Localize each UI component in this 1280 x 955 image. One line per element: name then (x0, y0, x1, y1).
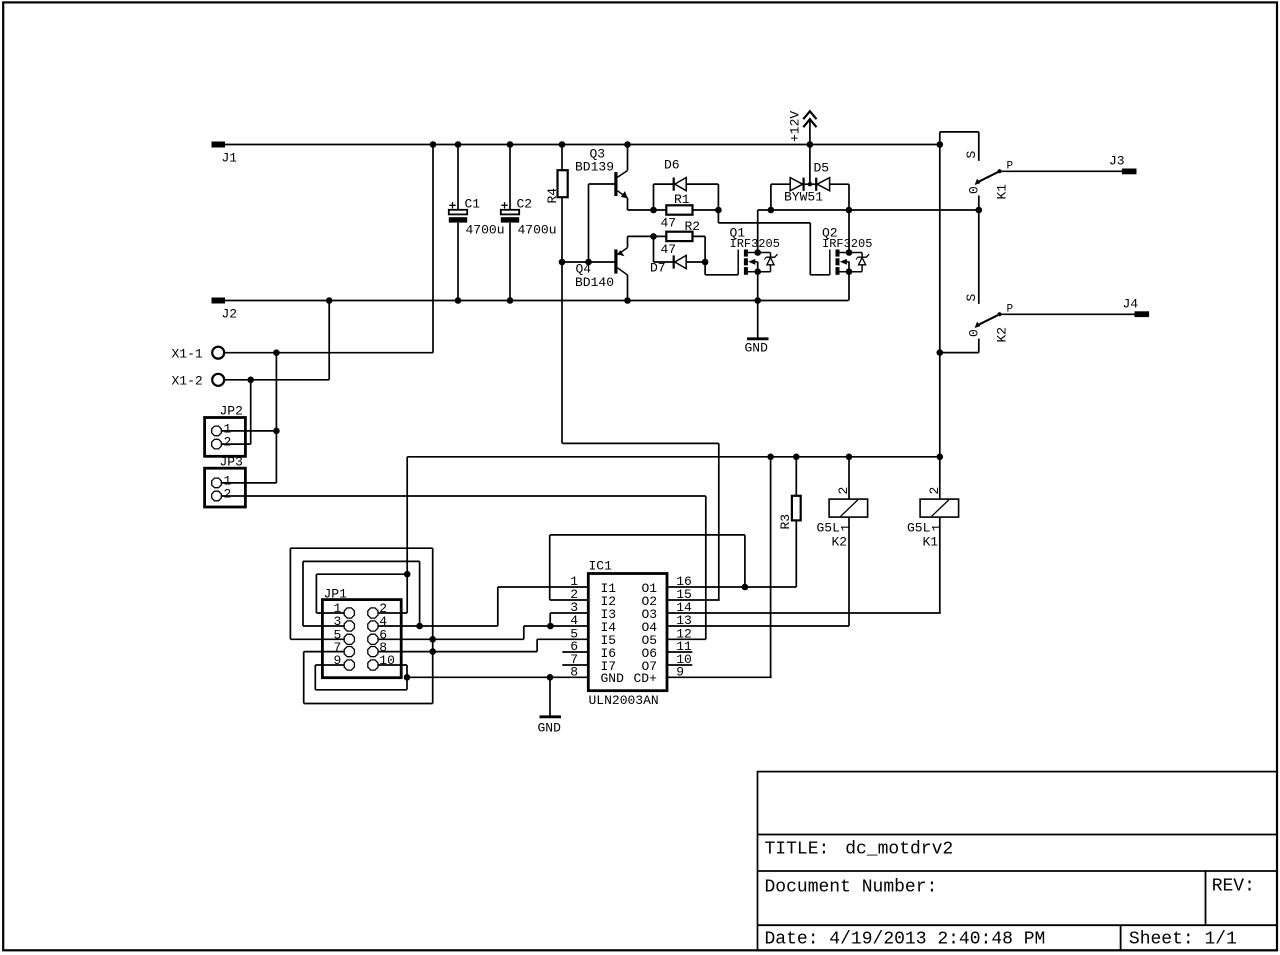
svg-text:0: 0 (967, 186, 982, 194)
svg-text:GND: GND (745, 341, 769, 356)
svg-text:D5: D5 (814, 161, 830, 176)
svg-text:IRF3205: IRF3205 (822, 237, 872, 251)
svg-text:CD+: CD+ (634, 671, 658, 686)
svg-text:J2: J2 (222, 307, 238, 322)
svg-text:K2: K2 (832, 535, 848, 550)
svg-text:+12V: +12V (788, 111, 803, 142)
svg-text:D7: D7 (650, 261, 666, 276)
svg-text:G5L: G5L (907, 521, 930, 536)
svg-text:K2: K2 (995, 327, 1010, 343)
svg-text:P: P (1007, 304, 1014, 316)
svg-text:Sheet: 1/1: Sheet: 1/1 (1129, 930, 1237, 950)
svg-text:X1-1: X1-1 (172, 347, 203, 362)
svg-text:9: 9 (334, 653, 342, 668)
svg-text:J3: J3 (1109, 154, 1125, 169)
svg-text:9: 9 (676, 664, 684, 679)
svg-text:4700u: 4700u (466, 223, 505, 238)
svg-text:47: 47 (661, 216, 677, 231)
svg-text:TITLE:: TITLE: (765, 840, 830, 860)
svg-text:GND: GND (601, 671, 625, 686)
svg-text:ULN2003AN: ULN2003AN (589, 693, 659, 708)
svg-text:D6: D6 (664, 158, 680, 173)
svg-text:K1: K1 (923, 535, 939, 550)
svg-text:J1: J1 (222, 151, 238, 166)
svg-text:IC1: IC1 (589, 559, 613, 574)
svg-text:JP1: JP1 (324, 587, 348, 602)
svg-text:BD140: BD140 (575, 275, 614, 290)
svg-text:BYW51: BYW51 (784, 190, 823, 205)
svg-text:BD139: BD139 (575, 160, 614, 175)
svg-text:S: S (964, 294, 979, 302)
svg-text:J4: J4 (1123, 297, 1139, 312)
svg-text:REV:: REV: (1212, 877, 1255, 897)
svg-text:8: 8 (570, 664, 578, 679)
svg-text:10: 10 (379, 653, 395, 668)
svg-text:R2: R2 (685, 219, 701, 234)
svg-text:C2: C2 (517, 197, 533, 212)
svg-text:47: 47 (661, 242, 677, 257)
svg-text:P: P (1007, 161, 1014, 173)
svg-text:JP2: JP2 (220, 404, 243, 419)
svg-text:Date: 4/19/2013 2:40:48 PM: Date: 4/19/2013 2:40:48 PM (765, 930, 1046, 950)
svg-text:0: 0 (967, 329, 982, 337)
svg-text:2: 2 (927, 487, 942, 495)
svg-text:G5L: G5L (817, 521, 840, 536)
svg-text:2: 2 (224, 487, 232, 502)
svg-text:R3: R3 (778, 514, 793, 530)
svg-text:GND: GND (538, 721, 562, 736)
svg-text:R1: R1 (674, 192, 690, 207)
svg-text:X1-2: X1-2 (172, 374, 203, 389)
svg-text:C1: C1 (465, 197, 481, 212)
svg-text:JP3: JP3 (220, 455, 243, 470)
svg-text:Document Number:: Document Number: (765, 878, 938, 898)
svg-text:1: 1 (930, 524, 945, 532)
svg-text:K1: K1 (995, 184, 1010, 200)
svg-text:dc_motdrv2: dc_motdrv2 (845, 840, 953, 860)
svg-text:1: 1 (839, 524, 854, 532)
svg-text:R4: R4 (545, 188, 560, 204)
svg-text:2: 2 (836, 487, 851, 495)
svg-text:IRF3205: IRF3205 (730, 237, 780, 251)
svg-text:4700u: 4700u (518, 223, 557, 238)
svg-text:S: S (964, 151, 979, 159)
svg-text:2: 2 (224, 435, 232, 450)
